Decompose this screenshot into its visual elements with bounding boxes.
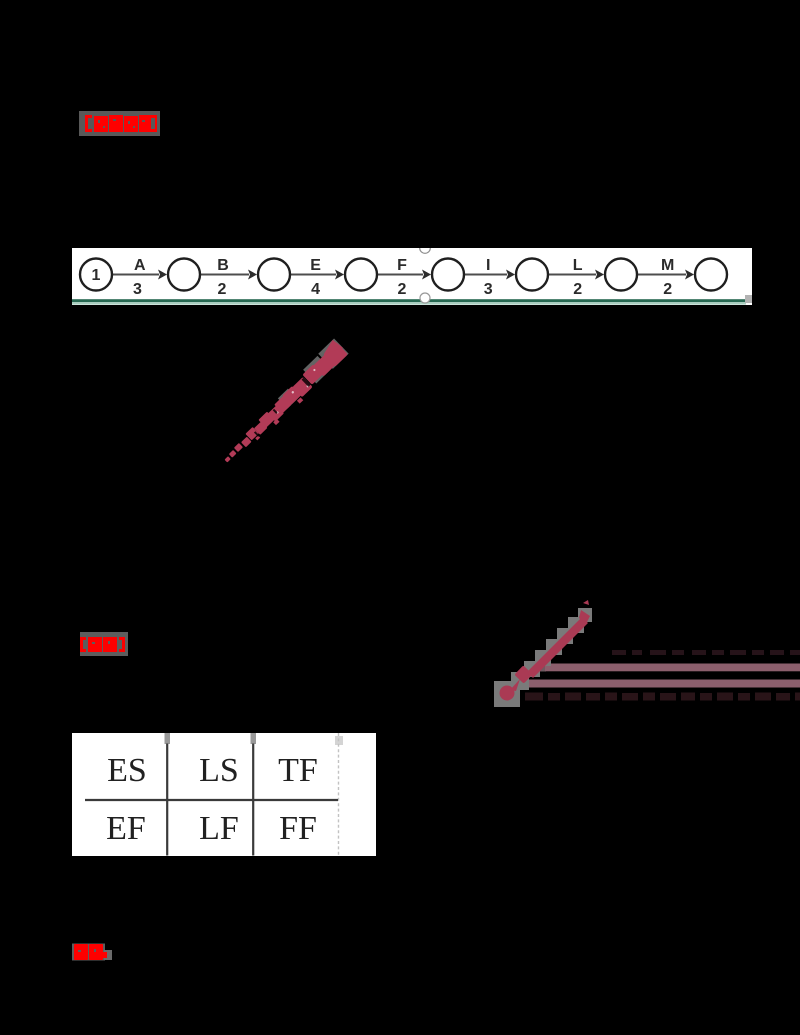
svg-text:4: 4 <box>311 281 320 298</box>
gray tips of vertical rules <box>165 733 171 744</box>
network diagram white strip <box>72 248 752 305</box>
node circles <box>80 259 727 291</box>
svg-text:A: A <box>134 257 146 274</box>
svg-text:LS: LS <box>199 752 239 789</box>
label: small red heading bottom-left <box>71 943 113 962</box>
svg-text:2: 2 <box>663 281 672 298</box>
label: red heading top-left <box>79 111 161 136</box>
svg-text:B: B <box>217 257 229 274</box>
svg-text:E: E <box>310 257 321 274</box>
svg-text:3: 3 <box>133 281 142 298</box>
horizontal mauve watermark bands right of pen-stroke <box>500 645 800 705</box>
svg-text:2: 2 <box>573 281 582 298</box>
svg-text:M: M <box>661 257 674 274</box>
gray handle square right <box>745 295 753 303</box>
dark maroon dashed row <box>525 693 800 701</box>
svg-text:FF: FF <box>279 810 317 847</box>
svg-text:L: L <box>573 257 583 274</box>
diagonal watermark 1 (upper) <box>200 330 370 480</box>
horizontal rule <box>85 799 338 801</box>
dashed right border <box>338 733 340 857</box>
svg-text:TF: TF <box>278 752 318 789</box>
top-center selection handle <box>420 243 431 254</box>
svg-text:I: I <box>486 257 490 274</box>
activity letters <box>134 257 674 274</box>
svg-text:2: 2 <box>218 281 227 298</box>
svg-text:ES: ES <box>107 752 147 789</box>
svg-text:F: F <box>397 257 407 274</box>
svg-text:3: 3 <box>484 281 493 298</box>
diagonal watermark 2 (lower, pen-stroke) <box>490 595 625 710</box>
table: ES LS TF / EF LF FF <box>72 733 377 857</box>
svg-text:EF: EF <box>106 810 146 847</box>
svg-text:1: 1 <box>92 267 101 284</box>
mauve band 2 <box>527 680 800 688</box>
bottom-center selection handle over teal line <box>419 291 431 304</box>
durations <box>133 281 672 298</box>
arrows <box>112 274 686 276</box>
vertical rules <box>166 744 168 856</box>
svg-text:LF: LF <box>199 810 239 847</box>
teal underline <box>72 299 746 302</box>
mauve band 1 <box>536 663 546 672</box>
svg-text:2: 2 <box>398 281 407 298</box>
label: red heading middle-left <box>80 632 128 656</box>
